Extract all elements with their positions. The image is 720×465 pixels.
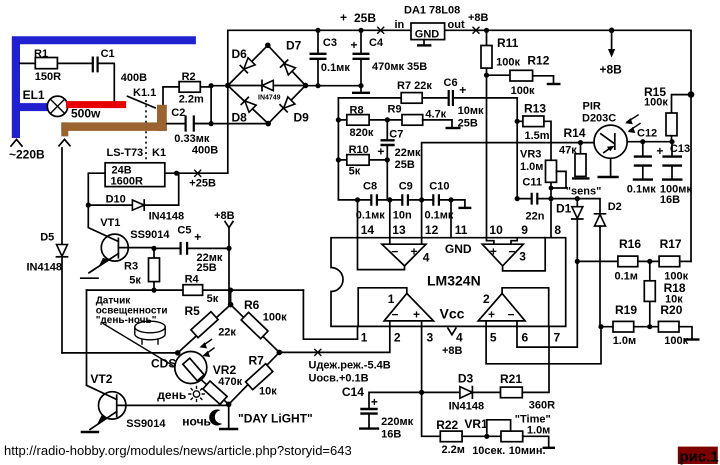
svg-text:K1: K1 <box>152 147 166 159</box>
switch K1.1 <box>128 96 156 108</box>
resistor R10 <box>338 159 387 161</box>
svg-text:C13: C13 <box>670 143 690 155</box>
resistor R21 <box>501 387 523 398</box>
svg-text:25В: 25В <box>354 11 376 25</box>
svg-text:1600R: 1600R <box>111 175 143 187</box>
svg-text:D9: D9 <box>294 110 310 124</box>
svg-text:~220В: ~220В <box>9 148 45 162</box>
svg-text:LM324N: LM324N <box>427 273 481 289</box>
svg-text:7: 7 <box>554 330 561 344</box>
capacitor C8 <box>371 194 377 205</box>
svg-text:−: − <box>391 245 398 259</box>
svg-text:R10: R10 <box>349 144 369 156</box>
svg-text:0.1м: 0.1м <box>615 271 638 283</box>
wire relay left <box>88 173 105 205</box>
svg-text:9: 9 <box>521 223 528 237</box>
svg-text:R7: R7 <box>249 354 265 368</box>
svg-text:DA1 78L08: DA1 78L08 <box>404 5 460 17</box>
svg-text:out: out <box>448 19 465 31</box>
svg-text:C14: C14 <box>342 385 364 399</box>
diode D9 <box>280 97 295 112</box>
node X mark in <box>473 27 479 33</box>
svg-text:in: in <box>395 19 405 31</box>
svg-text:400В: 400В <box>192 145 218 157</box>
svg-text:5: 5 <box>490 330 497 344</box>
svg-text:6: 6 <box>522 330 529 344</box>
svg-text:12: 12 <box>425 223 439 237</box>
svg-text:VT2: VT2 <box>90 372 112 386</box>
svg-text:2: 2 <box>394 330 401 344</box>
svg-text:+: + <box>413 307 420 321</box>
svg-text:+: + <box>490 245 497 259</box>
svg-text:D10: D10 <box>106 193 126 205</box>
svg-text:1.0м: 1.0м <box>527 424 550 436</box>
svg-text:SS9014: SS9014 <box>126 418 166 430</box>
node GND pin11 <box>450 200 452 238</box>
svg-text:400В: 400В <box>121 72 147 84</box>
svg-text:0.1мк: 0.1мк <box>627 183 656 195</box>
svg-text:10: 10 <box>489 223 503 237</box>
svg-text:C2: C2 <box>171 107 185 119</box>
svg-text:8: 8 <box>554 223 561 237</box>
svg-text:25В: 25В <box>458 117 478 129</box>
svg-text:10к: 10к <box>259 386 277 398</box>
resistor R13 <box>517 121 551 160</box>
resistor R2 <box>200 86 211 88</box>
svg-text:47к: 47к <box>559 144 577 156</box>
svg-text:16В: 16В <box>381 429 401 441</box>
svg-text:http://radio-hobby.org/modules: http://radio-hobby.org/modules/news/arti… <box>4 443 352 458</box>
resistor R9 <box>402 115 423 126</box>
svg-text:R5: R5 <box>185 304 201 318</box>
resistor R5 <box>178 290 231 353</box>
light arrows PIR <box>627 115 640 131</box>
svg-text:GND: GND <box>445 242 472 256</box>
node +25B mark <box>195 170 201 176</box>
node 25B mark <box>378 27 384 33</box>
wire main 25V top rail <box>228 30 691 261</box>
capacitor C2 <box>167 123 186 125</box>
relay coil K1 <box>105 163 165 187</box>
svg-text:C1: C1 <box>101 48 115 60</box>
svg-text:14: 14 <box>361 223 375 237</box>
svg-text:D5: D5 <box>40 232 54 244</box>
svg-text:C4: C4 <box>369 37 384 49</box>
resistor R3 <box>153 248 155 290</box>
label pic1 <box>678 447 718 464</box>
svg-text:C3: C3 <box>323 37 337 49</box>
svg-text:LS-T73: LS-T73 <box>107 147 144 159</box>
svg-text:R7 22к: R7 22к <box>397 80 432 92</box>
svg-text:13: 13 <box>392 223 406 237</box>
diode D10 <box>88 173 178 205</box>
resistor R11 <box>486 30 488 237</box>
resistor R7 <box>338 97 448 99</box>
capacitor C1 <box>93 57 98 73</box>
svg-text:C12: C12 <box>637 128 657 140</box>
svg-text:10мин.: 10мин. <box>509 445 546 457</box>
svg-text:IN4749: IN4749 <box>258 95 281 102</box>
callout line <box>103 324 183 372</box>
svg-text:1.0м: 1.0м <box>613 335 636 347</box>
svg-text:R2: R2 <box>182 71 196 83</box>
svg-text:5к: 5к <box>207 293 219 305</box>
resistor R16 <box>577 260 659 262</box>
svg-text:R17: R17 <box>660 237 682 251</box>
svg-text:220мк: 220мк <box>381 416 413 428</box>
diode D5 <box>61 148 63 353</box>
svg-text:R4: R4 <box>185 273 200 285</box>
svg-text:10мк: 10мк <box>458 105 484 117</box>
resistor R6 <box>231 305 280 353</box>
transistor VT1 <box>101 234 128 261</box>
svg-text:IN4148: IN4148 <box>27 261 62 273</box>
svg-text:+: + <box>488 307 495 321</box>
svg-text:Vcc: Vcc <box>440 306 465 322</box>
node +8B fork at C5 <box>225 222 233 305</box>
wire relay link dotted <box>145 100 147 162</box>
svg-text:10сек.: 10сек. <box>472 445 505 457</box>
svg-text:рис.1: рис.1 <box>680 449 719 465</box>
svg-text:1: 1 <box>361 330 368 344</box>
wire R2/C2 to bridge <box>194 86 268 124</box>
ground day-night node <box>228 404 230 428</box>
svg-text:D1: D1 <box>556 202 572 216</box>
svg-text:R12: R12 <box>527 53 549 67</box>
svg-text:+: + <box>351 38 358 52</box>
svg-text:4: 4 <box>423 251 430 265</box>
svg-text:C7: C7 <box>389 129 403 141</box>
diode D6 <box>240 58 255 73</box>
svg-text:4: 4 <box>456 330 463 344</box>
svg-text:4.7к: 4.7к <box>425 109 446 121</box>
svg-text:R21: R21 <box>500 372 522 386</box>
svg-text:D8: D8 <box>232 111 248 125</box>
svg-text:360R: 360R <box>529 399 555 411</box>
svg-text:R13: R13 <box>524 102 546 116</box>
svg-text:100к: 100к <box>511 85 535 97</box>
svg-text:5к: 5к <box>349 166 361 178</box>
op-amp U1.4 <box>358 200 405 270</box>
svg-text:0.1мк: 0.1мк <box>425 210 454 222</box>
diode D1 <box>572 207 583 219</box>
svg-text:C8: C8 <box>363 181 377 193</box>
wire lamp red <box>66 101 126 108</box>
svg-text:−: − <box>508 245 515 259</box>
svg-text:C10: C10 <box>429 181 449 193</box>
resistor R1 <box>20 62 93 64</box>
svg-text:R20: R20 <box>660 303 682 317</box>
diode D2 <box>595 214 606 226</box>
svg-text:0.1мк: 0.1мк <box>356 210 385 222</box>
svg-text:R16: R16 <box>619 237 641 251</box>
svg-text:R1: R1 <box>34 48 48 60</box>
svg-text:10n: 10n <box>393 210 412 222</box>
svg-text:VR3: VR3 <box>520 148 541 160</box>
capacitor C5 <box>154 247 181 249</box>
svg-text:2.2m: 2.2m <box>179 94 204 106</box>
svg-text:"sens": "sens" <box>566 186 602 198</box>
diode D3 <box>422 391 501 393</box>
photoresistor CDS <box>175 352 207 384</box>
svg-text:R6: R6 <box>244 298 260 312</box>
resistor R19 <box>601 326 658 328</box>
svg-text:+: + <box>411 245 418 259</box>
wire pin12 to R14 row <box>422 143 595 200</box>
resistor R8 <box>338 119 402 121</box>
capacitor C10 <box>433 194 439 205</box>
wire pin5 net <box>486 326 601 363</box>
svg-text:CDS: CDS <box>151 357 176 371</box>
potentiometer VR1 <box>501 431 523 442</box>
svg-text:150R: 150R <box>35 71 61 83</box>
potentiometer VR2 <box>202 380 229 404</box>
svg-text:IN4148: IN4148 <box>149 211 184 223</box>
wire pin3 down <box>422 326 441 436</box>
svg-text:C6: C6 <box>444 77 458 89</box>
svg-text:Uосв.+0.1В: Uосв.+0.1В <box>309 373 369 385</box>
resistor R17 <box>659 256 680 267</box>
svg-text:+: + <box>371 395 378 409</box>
svg-text:R3: R3 <box>124 260 138 272</box>
svg-text:22n: 22n <box>526 210 545 222</box>
node AC neutral arrow <box>59 139 70 146</box>
svg-text:1: 1 <box>388 292 395 306</box>
diode D8 <box>241 97 256 112</box>
svg-text:GND: GND <box>415 29 440 41</box>
svg-text:IN4148: IN4148 <box>449 400 484 412</box>
svg-text:−: − <box>392 307 399 321</box>
svg-text:R9: R9 <box>388 104 402 116</box>
capacitor C7 <box>386 120 388 160</box>
svg-text:+: + <box>377 144 384 158</box>
svg-text:−: − <box>508 307 515 321</box>
svg-text:D3: D3 <box>458 372 474 386</box>
svg-text:D7: D7 <box>286 39 302 53</box>
wire pin6 net <box>517 261 577 347</box>
sensor note box <box>62 290 178 385</box>
svg-text:16В: 16В <box>660 194 680 206</box>
wire 220V brown neutral <box>163 87 179 124</box>
svg-text:день: день <box>157 388 186 402</box>
svg-text:470к: 470к <box>218 376 242 388</box>
svg-text:820к: 820к <box>350 127 374 139</box>
svg-text:C9: C9 <box>399 181 413 193</box>
svg-text:C11: C11 <box>522 177 542 189</box>
svg-text:1.5m: 1.5m <box>525 130 550 142</box>
wire left bus to cap row <box>338 98 387 200</box>
svg-text:+: + <box>459 83 466 97</box>
svg-text:100к: 100к <box>496 57 520 69</box>
svg-text:+8В: +8В <box>600 63 623 77</box>
capacitor C12 <box>627 142 671 179</box>
diode D7 <box>281 60 296 75</box>
resistor R18 <box>649 261 651 326</box>
svg-text:D2: D2 <box>608 201 622 213</box>
svg-text:470мк 35В: 470мк 35В <box>372 61 427 73</box>
transistor VT2 <box>99 392 126 419</box>
resistor R7b <box>229 352 280 404</box>
svg-text:R11: R11 <box>497 36 519 50</box>
svg-text:Uдеж.реж.-5.4В: Uдеж.реж.-5.4В <box>309 360 391 372</box>
capacitor C14 <box>369 392 422 428</box>
resistor R4 <box>87 289 304 291</box>
svg-text:SS9014: SS9014 <box>130 229 170 241</box>
lamp EL1 <box>47 96 67 116</box>
svg-text:ночь: ночь <box>182 415 211 429</box>
resistor R22 <box>440 431 462 442</box>
node +8B rail arrow <box>609 28 615 34</box>
node AC phase arrow <box>11 140 22 147</box>
svg-text:22к: 22к <box>218 326 236 338</box>
svg-text:+25В: +25В <box>189 178 216 190</box>
capacitor C3 <box>317 30 319 85</box>
svg-text:+: + <box>656 144 663 158</box>
svg-text:D6: D6 <box>232 47 248 61</box>
svg-text:+: + <box>194 230 201 244</box>
svg-text:1.0м: 1.0м <box>520 161 543 173</box>
svg-text:3: 3 <box>427 330 434 344</box>
svg-text:100к: 100к <box>664 335 688 347</box>
capacitor C13 <box>671 142 673 179</box>
resistor R14 <box>580 143 582 154</box>
wire sens net <box>551 199 600 214</box>
resistor R15 <box>672 95 692 142</box>
svg-text:22мк: 22мк <box>395 147 421 159</box>
LDR drawing <box>135 321 165 333</box>
capacitor C11 <box>517 121 551 198</box>
capacitor C6 <box>449 90 453 106</box>
svg-text:25В: 25В <box>395 159 415 171</box>
svg-text:3: 3 <box>519 250 526 264</box>
svg-text:+: + <box>340 11 347 25</box>
potentiometer VR3 <box>546 160 557 182</box>
svg-text:0.33мк: 0.33мк <box>174 133 210 145</box>
svg-text:100к: 100к <box>644 96 668 108</box>
svg-text:R14: R14 <box>564 126 586 140</box>
ground under C4 <box>360 86 362 93</box>
wire pin1 loop <box>303 290 357 339</box>
svg-text:VT1: VT1 <box>100 217 120 229</box>
op-amp U1.1 <box>384 293 433 321</box>
svg-text:+8В: +8В <box>442 345 463 357</box>
svg-text:R19: R19 <box>615 303 637 317</box>
capacitor C4 <box>360 30 362 85</box>
svg-text:"DAY LiGHT": "DAY LiGHT" <box>238 411 313 425</box>
zener VD IN4749 <box>228 85 306 87</box>
wire 220V blue phase <box>12 36 196 138</box>
node +8B fork pin4 <box>448 328 456 335</box>
svg-text:VR1: VR1 <box>464 417 488 431</box>
svg-text:K1.1: K1.1 <box>133 87 156 99</box>
svg-text:11: 11 <box>455 223 468 237</box>
svg-text:R22: R22 <box>436 418 458 432</box>
op-amp U1.3 <box>482 244 523 266</box>
svg-text:+8В: +8В <box>214 210 235 222</box>
svg-text:C5: C5 <box>177 224 191 236</box>
wire pin2 to day-night <box>279 326 390 352</box>
svg-text:EL1: EL1 <box>23 88 45 102</box>
wire bridge dc rail <box>306 85 362 87</box>
capacitor C9 <box>402 194 408 205</box>
svg-text:100к: 100к <box>263 311 287 323</box>
svg-text:R8: R8 <box>350 104 364 116</box>
op-amp U1.2 <box>478 293 525 321</box>
bridge rectifier diamond <box>228 45 306 123</box>
svg-text:25В: 25В <box>197 262 217 274</box>
svg-text:PIR: PIR <box>583 101 601 113</box>
wire relay right +25V <box>165 172 228 174</box>
svg-text:D203C: D203C <box>582 113 616 125</box>
PIR sensor D203C <box>594 125 627 158</box>
ground cap row <box>451 200 465 207</box>
svg-text:5к: 5к <box>129 274 141 286</box>
resistor R12 <box>487 75 554 83</box>
light arrows CDS <box>202 340 215 356</box>
resistor R20 <box>658 321 679 332</box>
svg-text:500w: 500w <box>71 107 101 121</box>
svg-text:2.2м: 2.2м <box>442 444 465 456</box>
svg-text:2: 2 <box>483 292 490 306</box>
IC U1 LM324N body <box>331 238 566 327</box>
svg-text:0.1мк: 0.1мк <box>321 62 350 74</box>
svg-text:+8В: +8В <box>468 12 489 24</box>
